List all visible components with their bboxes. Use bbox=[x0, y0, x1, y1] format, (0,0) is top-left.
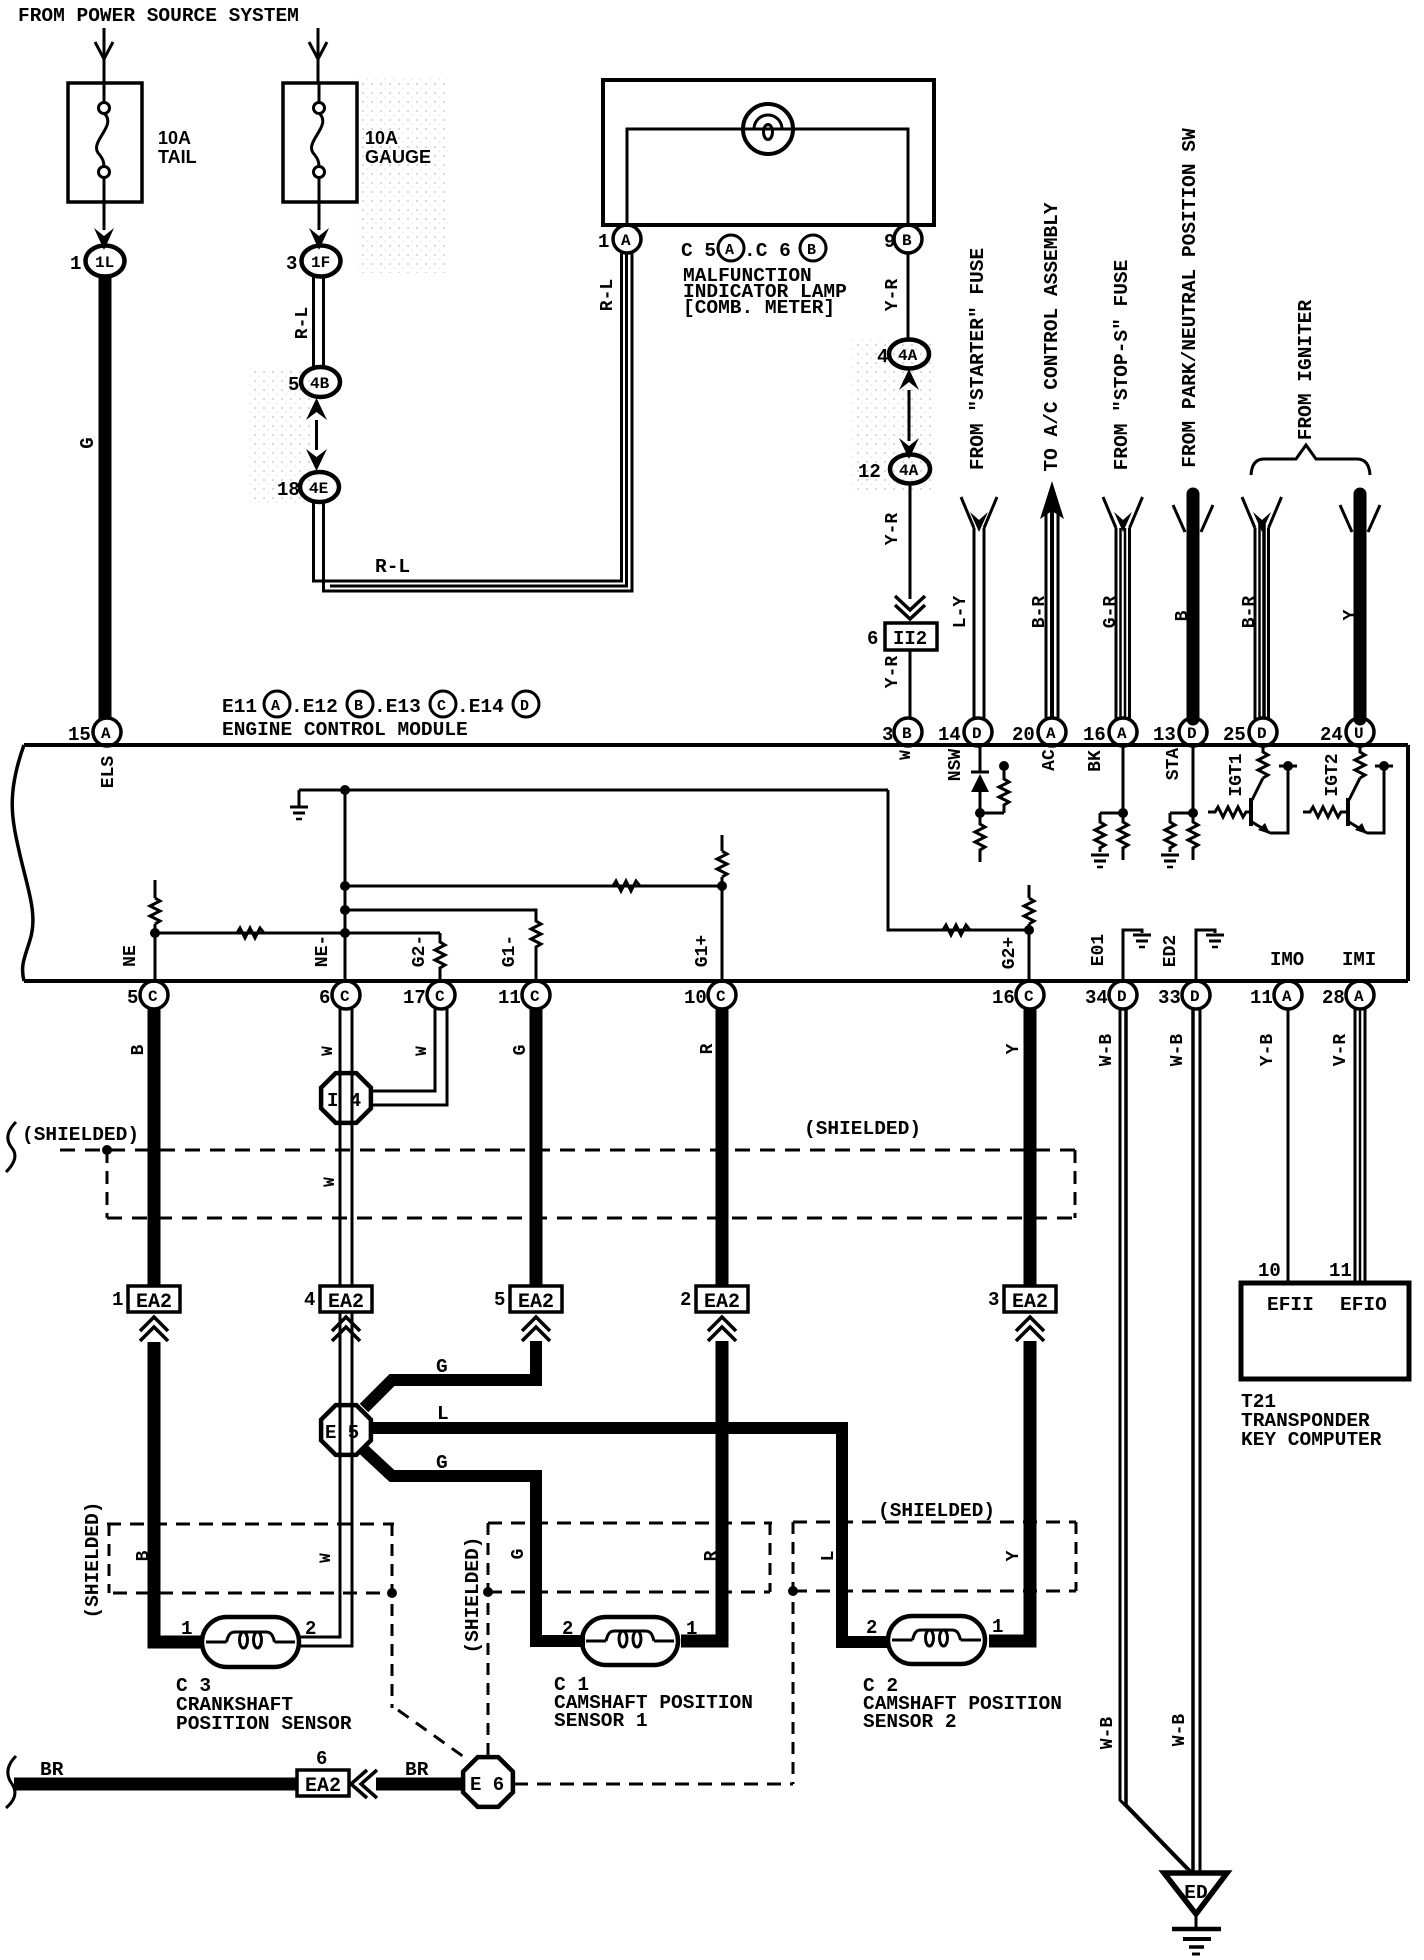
svg-text:R: R bbox=[702, 1550, 722, 1561]
svg-text:B: B bbox=[1173, 610, 1193, 621]
svg-text:12: 12 bbox=[858, 461, 881, 483]
svg-text:I 4: I 4 bbox=[327, 1090, 361, 1112]
svg-text:17: 17 bbox=[403, 987, 426, 1009]
wire Y-R II2 to ECM 3(B) bbox=[909, 650, 912, 719]
svg-text:1: 1 bbox=[992, 1616, 1003, 1638]
junction connector 6 II2 bbox=[885, 623, 937, 650]
svg-text:5: 5 bbox=[494, 1289, 505, 1311]
line y910 to G1- with resistor bbox=[345, 910, 541, 981]
connector 5 (C) on ECM bbox=[140, 981, 168, 1009]
svg-text:ENGINE CONTROL MODULE: ENGINE CONTROL MODULE bbox=[222, 719, 468, 741]
connector 25 (D) on ECM bbox=[1249, 718, 1277, 746]
svg-text:2: 2 bbox=[305, 1618, 316, 1640]
svg-text:NE: NE bbox=[121, 945, 141, 967]
svg-text:C: C bbox=[716, 988, 726, 1006]
scan speckle bbox=[248, 78, 934, 503]
svg-text:4A: 4A bbox=[899, 462, 919, 480]
wire G (thick) 1L to ECM 15A bbox=[99, 276, 112, 719]
svg-text:L: L bbox=[819, 1551, 839, 1562]
svg-text:Y-R: Y-R bbox=[883, 656, 903, 689]
svg-text:A: A bbox=[725, 242, 734, 259]
svg-text:W: W bbox=[413, 1046, 431, 1056]
wire W pair from 6C down through I4 and E5 to C3 pin2 bbox=[339, 1009, 342, 1286]
svg-text:1: 1 bbox=[181, 1618, 192, 1640]
svg-text:ED: ED bbox=[1184, 1882, 1207, 1904]
svg-text:11: 11 bbox=[1329, 1260, 1352, 1282]
svg-text:G-R: G-R bbox=[1101, 596, 1121, 629]
connector 28 (A) on ECM bbox=[1346, 981, 1374, 1009]
arrow into GAUGE fuse bbox=[309, 42, 327, 59]
svg-text:POSITION SENSOR: POSITION SENSOR bbox=[176, 1713, 352, 1735]
connector 24 (U) on ECM bbox=[1346, 718, 1374, 746]
svg-text:FROM PARK/NEUTRAL POSITION SW: FROM PARK/NEUTRAL POSITION SW bbox=[1179, 128, 1201, 468]
svg-text:B: B bbox=[134, 1550, 154, 1561]
svg-text:R-L: R-L bbox=[598, 279, 618, 311]
svg-text:(SHIELDED): (SHIELDED) bbox=[82, 1501, 104, 1618]
ground ED2 bbox=[1196, 930, 1215, 981]
shield drain dashed line from E6 bbox=[514, 1783, 793, 1786]
wire G from 11C to E5 via 5EA2 bbox=[530, 1009, 543, 1287]
connector 15 (A) on ECM bbox=[93, 718, 121, 746]
svg-text:G1+: G1+ bbox=[693, 935, 713, 967]
svg-text:A: A bbox=[621, 232, 631, 250]
svg-text:E 5: E 5 bbox=[325, 1422, 359, 1444]
wire W-B pair from 33D to ED bbox=[1191, 1009, 1195, 1871]
svg-text:G1-: G1- bbox=[500, 935, 520, 967]
connector 4 (4A) bbox=[889, 340, 929, 369]
ground E01 bbox=[1123, 930, 1142, 981]
svg-text:4A: 4A bbox=[898, 347, 918, 365]
svg-text:II2: II2 bbox=[893, 628, 927, 650]
wire B-R triple to 20(A) with up arrow bbox=[1045, 512, 1048, 719]
svg-text:D: D bbox=[520, 698, 529, 715]
svg-text:B: B bbox=[807, 242, 816, 259]
connector 14 (D) on ECM bbox=[964, 718, 992, 746]
svg-text:EA2: EA2 bbox=[328, 1291, 364, 1314]
connector 6 (C) on ECM bbox=[332, 981, 360, 1009]
svg-text:33: 33 bbox=[1158, 987, 1181, 1009]
crankshaft position sensor C3 bbox=[202, 1617, 299, 1667]
svg-text:D: D bbox=[1117, 988, 1127, 1006]
svg-text:4E: 4E bbox=[309, 480, 328, 498]
svg-text:W-B: W-B bbox=[1168, 1034, 1188, 1067]
ECM box bbox=[24, 743, 1408, 747]
svg-text:5: 5 bbox=[127, 987, 138, 1009]
connector 3 (1F) bbox=[302, 246, 341, 277]
junction box 3 EA2 bbox=[1004, 1286, 1056, 1312]
svg-text:FROM POWER SOURCE SYSTEM: FROM POWER SOURCE SYSTEM bbox=[18, 5, 299, 27]
wire 4B to 4E bbox=[315, 420, 318, 450]
svg-text:A: A bbox=[1046, 725, 1056, 743]
connector 20 (A) on ECM bbox=[1038, 718, 1066, 746]
svg-text:R-L: R-L bbox=[375, 556, 410, 578]
wire from power source to TAIL fuse bbox=[103, 28, 106, 84]
svg-text:.C 6: .C 6 bbox=[744, 240, 791, 262]
svg-text:G: G bbox=[77, 437, 99, 448]
shielded cable box (upper) bbox=[60, 1149, 1075, 1152]
svg-text:W-B: W-B bbox=[1097, 1034, 1117, 1067]
wire L-Y pair to 14(D) with fork bbox=[973, 528, 976, 719]
wire W-B pair from 34D to ED bbox=[1120, 1009, 1187, 1869]
svg-text:18: 18 bbox=[277, 479, 300, 501]
svg-text:FROM "STARTER" FUSE: FROM "STARTER" FUSE bbox=[967, 248, 989, 470]
svg-text:D: D bbox=[972, 725, 982, 743]
svg-text:[COMB. METER]: [COMB. METER] bbox=[683, 297, 835, 319]
svg-text:A: A bbox=[271, 698, 280, 715]
connector 11 (A) on ECM bbox=[1274, 981, 1302, 1009]
svg-text:1F: 1F bbox=[311, 254, 330, 272]
wire R-L pair 1F to 4B bbox=[312, 276, 315, 369]
svg-text:B: B bbox=[354, 698, 363, 715]
svg-text:G: G bbox=[436, 1452, 448, 1474]
svg-text:G: G bbox=[511, 1045, 531, 1056]
svg-text:11: 11 bbox=[1250, 987, 1273, 1009]
junction box 6 EA2 bbox=[297, 1770, 349, 1796]
svg-text:10A: 10A bbox=[365, 128, 398, 148]
svg-text:W: W bbox=[319, 1046, 337, 1056]
svg-text:R-L: R-L bbox=[293, 307, 313, 339]
node G2+ with resistor bbox=[1028, 885, 1031, 898]
wire BR to E6 bbox=[376, 1778, 464, 1791]
svg-text:3: 3 bbox=[286, 253, 297, 275]
svg-text:2: 2 bbox=[680, 1289, 691, 1311]
svg-text:A: A bbox=[1282, 988, 1292, 1006]
wire fuse to connector 1L bbox=[103, 202, 106, 230]
svg-text:EA2: EA2 bbox=[136, 1291, 172, 1314]
svg-text:V-R: V-R bbox=[1331, 1034, 1351, 1067]
svg-text:14: 14 bbox=[938, 724, 961, 746]
svg-text:3: 3 bbox=[988, 1289, 999, 1311]
arrow into TAIL fuse bbox=[95, 42, 113, 59]
connector arrow down above 12(4A) bbox=[899, 438, 919, 459]
shielded box C2 bbox=[793, 1521, 1076, 1524]
connector 1 (A) of comb meter bbox=[613, 225, 641, 253]
svg-text:TO A/C CONTROL ASSEMBLY: TO A/C CONTROL ASSEMBLY bbox=[1041, 202, 1063, 471]
svg-text:B: B bbox=[129, 1044, 149, 1055]
camshaft position sensor 1 C1 bbox=[582, 1617, 678, 1665]
svg-text:A: A bbox=[1117, 725, 1127, 743]
svg-text:D: D bbox=[1187, 725, 1197, 743]
svg-text:EFIO: EFIO bbox=[1340, 1294, 1387, 1316]
svg-text:D: D bbox=[1190, 988, 1200, 1006]
svg-text:BK: BK bbox=[1086, 750, 1106, 772]
malfunction indicator lamp C5/C6 outer box bbox=[603, 80, 934, 225]
connector arrow up below 4A bbox=[899, 369, 919, 390]
svg-text:(SHIELDED): (SHIELDED) bbox=[462, 1536, 484, 1653]
svg-text:2: 2 bbox=[562, 1618, 573, 1640]
svg-text:W: W bbox=[897, 750, 915, 760]
lamp bulb bbox=[743, 104, 793, 154]
junction connector E 6 bbox=[463, 1757, 513, 1807]
connector 12 (4A) bbox=[890, 455, 930, 484]
svg-text:25: 25 bbox=[1223, 724, 1246, 746]
fuse 10A GAUGE bbox=[283, 83, 357, 202]
svg-text:4B: 4B bbox=[310, 375, 330, 393]
wire Y-R 12(4A) to II2 bbox=[909, 484, 912, 599]
svg-text:.E12: .E12 bbox=[291, 696, 338, 718]
svg-text:2: 2 bbox=[866, 1617, 877, 1639]
connector arrow down above 4E bbox=[306, 449, 327, 471]
svg-text:1: 1 bbox=[112, 1289, 123, 1311]
branch to 17C G2- with resistor bbox=[435, 933, 445, 981]
svg-text:AC: AC bbox=[1040, 749, 1060, 771]
svg-text:4: 4 bbox=[304, 1289, 315, 1311]
connector 18 (4E) bbox=[300, 472, 339, 502]
svg-text:A: A bbox=[101, 725, 111, 743]
connector 5 (4B) bbox=[301, 367, 340, 397]
connector 13 (D) on ECM bbox=[1179, 718, 1207, 746]
wire Y thick to 24(U) with fork bbox=[1354, 494, 1367, 719]
wire 4A to 4A bbox=[908, 390, 911, 441]
connector 1 (1L) bbox=[86, 246, 125, 277]
junction box 4 EA2 bbox=[320, 1286, 372, 1312]
svg-text:15: 15 bbox=[68, 724, 91, 746]
svg-text:GAUGE: GAUGE bbox=[365, 147, 431, 167]
svg-text:Y-B: Y-B bbox=[1258, 1034, 1278, 1067]
connector 16 (C) on ECM bbox=[1016, 981, 1044, 1009]
connector arrow down bbox=[94, 228, 114, 250]
svg-text:Y-R: Y-R bbox=[883, 279, 903, 312]
svg-text:(SHIELDED): (SHIELDED) bbox=[804, 1118, 921, 1140]
svg-text:STA: STA bbox=[1164, 748, 1184, 781]
line y886 to G1+ with resistor bbox=[345, 885, 722, 888]
svg-text:KEY COMPUTER: KEY COMPUTER bbox=[1241, 1429, 1382, 1451]
svg-text:B: B bbox=[902, 232, 912, 250]
fuse 10A TAIL bbox=[68, 83, 142, 202]
svg-text:C: C bbox=[1024, 988, 1034, 1006]
svg-text:W: W bbox=[317, 1553, 335, 1563]
transponder key computer T21 bbox=[1241, 1283, 1409, 1379]
svg-text:G2-: G2- bbox=[410, 935, 430, 967]
wire Y-R from 9(B) down bbox=[907, 253, 910, 341]
connector 33 (D) on ECM bbox=[1182, 981, 1210, 1009]
svg-text:D: D bbox=[1257, 725, 1267, 743]
wire L from E5 to C2 pin2 bbox=[372, 1428, 890, 1642]
svg-text:20: 20 bbox=[1012, 724, 1035, 746]
svg-text:NE-: NE- bbox=[313, 935, 333, 967]
svg-text:B: B bbox=[902, 725, 912, 743]
svg-text:11: 11 bbox=[498, 987, 521, 1009]
svg-text:E01: E01 bbox=[1089, 934, 1109, 967]
svg-text:C 5: C 5 bbox=[681, 240, 716, 262]
connector 17 (C) on ECM bbox=[427, 981, 455, 1009]
svg-text:IGT1: IGT1 bbox=[1227, 753, 1247, 796]
svg-text:EFII: EFII bbox=[1267, 1294, 1314, 1316]
svg-text:1: 1 bbox=[70, 253, 81, 275]
svg-text:B-R: B-R bbox=[1030, 596, 1050, 629]
wire fuse to connector 1F bbox=[318, 202, 321, 230]
svg-text:Y: Y bbox=[1341, 609, 1361, 620]
svg-text:(SHIELDED): (SHIELDED) bbox=[878, 1500, 995, 1522]
ground ED triangle bbox=[1164, 1873, 1227, 1914]
svg-text:C: C bbox=[148, 988, 158, 1006]
junction box 1 EA2 bbox=[128, 1286, 180, 1312]
svg-text:10: 10 bbox=[1258, 1260, 1281, 1282]
svg-text:10A: 10A bbox=[158, 128, 191, 148]
svg-text:C: C bbox=[530, 988, 540, 1006]
svg-text:1L: 1L bbox=[95, 254, 114, 272]
connector 34 (D) on ECM bbox=[1109, 981, 1137, 1009]
svg-text:ED2: ED2 bbox=[1161, 935, 1181, 967]
svg-text:BR: BR bbox=[405, 1759, 429, 1781]
wire R-L from 4E to malfunction indicator lamp (triple run) bbox=[314, 253, 622, 581]
junction connector E 5 bbox=[321, 1405, 371, 1455]
svg-text:1: 1 bbox=[598, 231, 609, 253]
svg-text:16: 16 bbox=[1083, 724, 1106, 746]
line NE to G2- with resistor bbox=[155, 932, 440, 935]
svg-text:E11: E11 bbox=[222, 696, 257, 718]
svg-text:Y: Y bbox=[1004, 1043, 1024, 1054]
junction box 2 EA2 bbox=[696, 1286, 748, 1312]
svg-text:G: G bbox=[509, 1549, 529, 1560]
junction box 5 EA2 bbox=[510, 1286, 562, 1312]
wire V-R triple from 28A to T21 bbox=[1354, 1009, 1357, 1284]
lamp inner wiring bbox=[627, 129, 908, 226]
svg-text:L-Y: L-Y bbox=[951, 596, 971, 629]
wire from power source to GAUGE fuse bbox=[317, 28, 320, 84]
svg-text:BR: BR bbox=[40, 1759, 64, 1781]
connector arrow up below 4B bbox=[306, 398, 327, 420]
svg-text:.E13: .E13 bbox=[374, 696, 421, 718]
connector 16 (A) on ECM bbox=[1109, 718, 1137, 746]
connector 9 (B) of comb meter bbox=[894, 225, 922, 253]
svg-text:13: 13 bbox=[1153, 724, 1176, 746]
svg-text:NSW: NSW bbox=[946, 749, 966, 782]
svg-text:(SHIELDED): (SHIELDED) bbox=[22, 1124, 139, 1146]
wire W pair from 17C into I4 bbox=[372, 1009, 435, 1091]
svg-text:5: 5 bbox=[288, 374, 299, 396]
svg-text:EA2: EA2 bbox=[305, 1775, 341, 1798]
svg-text:IMI: IMI bbox=[1342, 949, 1376, 971]
svg-text:Y: Y bbox=[1004, 1550, 1024, 1561]
wire G-R quad to 16(A) with fork bbox=[1115, 528, 1118, 719]
svg-text:W-B: W-B bbox=[1170, 1714, 1190, 1747]
wire B-R quad to 25(D) with fork bbox=[1254, 528, 1257, 719]
wire BR left with page squiggle bbox=[6, 1756, 16, 1808]
svg-text:U: U bbox=[1354, 725, 1364, 743]
svg-text:34: 34 bbox=[1085, 987, 1108, 1009]
svg-text:SENSOR 1: SENSOR 1 bbox=[554, 1710, 648, 1732]
svg-text:SENSOR 2: SENSOR 2 bbox=[863, 1711, 957, 1733]
svg-text:28: 28 bbox=[1322, 987, 1345, 1009]
svg-text:4: 4 bbox=[877, 346, 888, 368]
internal ground (signal) bbox=[298, 790, 301, 806]
svg-text:FROM "STOP-S" FUSE: FROM "STOP-S" FUSE bbox=[1111, 260, 1133, 471]
wire B thick to 13(D) with fork bbox=[1187, 494, 1200, 719]
svg-text:G2+: G2+ bbox=[1000, 937, 1020, 969]
svg-text:6: 6 bbox=[319, 987, 330, 1009]
connector 3 (B) on ECM bbox=[894, 718, 922, 746]
bus right leg to G2+ with resistor bbox=[888, 790, 1029, 930]
svg-text:C: C bbox=[437, 698, 446, 715]
svg-text:FROM IGNITER: FROM IGNITER bbox=[1295, 299, 1317, 440]
connector 10 (C) on ECM bbox=[708, 981, 736, 1009]
svg-text:L: L bbox=[437, 1403, 449, 1425]
svg-text:Y-R: Y-R bbox=[883, 513, 903, 546]
svg-text:6: 6 bbox=[316, 1748, 327, 1770]
svg-text:ELS: ELS bbox=[99, 756, 119, 789]
svg-text:24: 24 bbox=[1320, 724, 1343, 746]
svg-text:16: 16 bbox=[992, 987, 1015, 1009]
wire Y-B from 11A to T21 bbox=[1287, 1009, 1290, 1284]
svg-text:IGT2: IGT2 bbox=[1323, 753, 1343, 796]
connector arrow down bbox=[309, 228, 329, 250]
svg-text:C: C bbox=[435, 988, 445, 1006]
svg-text:1: 1 bbox=[686, 1618, 697, 1640]
wire R from 10C to C1 pin1 via 2EA2 bbox=[716, 1009, 729, 1287]
svg-text:W: W bbox=[321, 1177, 339, 1187]
junction arrows into II2 bbox=[895, 596, 925, 610]
svg-text:3: 3 bbox=[882, 724, 893, 746]
svg-text:10: 10 bbox=[684, 987, 707, 1009]
svg-text:A: A bbox=[1354, 988, 1364, 1006]
node G1+ with resistor bbox=[721, 835, 724, 851]
junction connector I 4 bbox=[321, 1073, 371, 1123]
svg-text:R: R bbox=[698, 1043, 718, 1054]
connector 11 (C) on ECM bbox=[522, 981, 550, 1009]
node NE with resistor bbox=[154, 880, 157, 898]
svg-text:.E14: .E14 bbox=[457, 696, 504, 718]
shielded box C3 bbox=[107, 1523, 394, 1526]
svg-text:TAIL: TAIL bbox=[158, 147, 197, 167]
wire G lower from E5 to C1 pin2 bbox=[364, 1450, 585, 1641]
svg-text:EA2: EA2 bbox=[704, 1291, 740, 1314]
wire B from 5C down to C3 bbox=[148, 1009, 161, 1286]
svg-text:G: G bbox=[436, 1356, 448, 1378]
svg-text:IMO: IMO bbox=[1270, 949, 1304, 971]
internal bus line y790 bbox=[299, 789, 888, 792]
svg-text:C: C bbox=[340, 988, 350, 1006]
svg-text:E 6: E 6 bbox=[470, 1774, 504, 1796]
svg-text:EA2: EA2 bbox=[518, 1291, 554, 1314]
shielded box C1 bbox=[488, 1522, 772, 1525]
svg-text:EA2: EA2 bbox=[1012, 1291, 1048, 1314]
camshaft position sensor 2 C2 bbox=[888, 1616, 985, 1664]
wire Y from 16C to C2 pin1 via 3EA2 bbox=[1024, 1009, 1037, 1287]
svg-text:9: 9 bbox=[884, 231, 895, 253]
svg-text:B-R: B-R bbox=[1240, 596, 1260, 629]
svg-text:6: 6 bbox=[867, 628, 878, 650]
svg-text:W-B: W-B bbox=[1098, 1717, 1118, 1750]
net NE- vertical bbox=[344, 790, 347, 981]
